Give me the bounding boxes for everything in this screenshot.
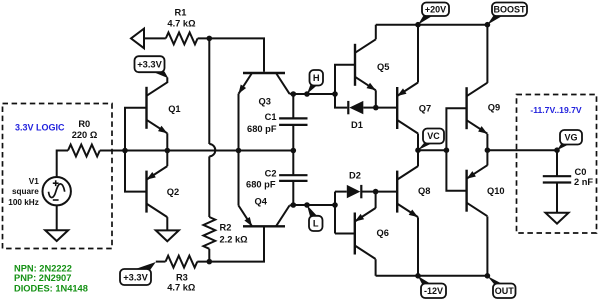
junction L flag anchor bbox=[304, 202, 310, 208]
resistor R1 bbox=[166, 33, 198, 45]
wire Q4 emitter bbox=[238, 151, 240, 206]
junction +20V anchor bbox=[415, 22, 421, 28]
svg-text:square: square bbox=[12, 187, 39, 196]
svg-text:VC: VC bbox=[427, 131, 440, 141]
junction VC anchor bbox=[415, 147, 421, 153]
svg-text:Q6: Q6 bbox=[377, 228, 389, 238]
wire Q6 collector drop bbox=[375, 259, 377, 276]
wire Q5 emitter drop bbox=[375, 90, 377, 107]
wire Q2 emitter bbox=[166, 151, 168, 167]
svg-text:2 nF: 2 nF bbox=[574, 177, 593, 187]
svg-text:DIODES: 1N4148: DIODES: 1N4148 bbox=[14, 284, 88, 294]
svg-text:Q10: Q10 bbox=[487, 186, 505, 196]
svg-text:Q5: Q5 bbox=[377, 62, 389, 72]
capacitor C2 bbox=[279, 150, 307, 205]
svg-text:D2: D2 bbox=[349, 170, 361, 180]
junction Q3/Q4 emitters bbox=[236, 148, 242, 154]
wire port to R1 bbox=[144, 37, 166, 39]
svg-text:OUT: OUT bbox=[495, 286, 515, 296]
svg-text:+20V: +20V bbox=[425, 5, 446, 15]
ground G1 bbox=[45, 230, 68, 241]
wire to Q1 base bbox=[125, 108, 147, 151]
wire to Q2 base bbox=[125, 151, 147, 192]
flag VC bbox=[418, 129, 444, 151]
wire Q1 emitter bbox=[166, 133, 168, 150]
capacitor C0 bbox=[543, 150, 571, 213]
transistor Q10 bbox=[467, 165, 488, 216]
wire hop over mid rail bbox=[209, 144, 215, 156]
wire Q1 collector stub bbox=[166, 78, 168, 84]
resistor R3 bbox=[166, 256, 198, 268]
transistor Q3 bbox=[239, 73, 290, 94]
flag BOOST bbox=[487, 3, 527, 25]
junction Q9/Q10 bases bbox=[444, 147, 450, 153]
svg-text:220 Ω: 220 Ω bbox=[72, 130, 98, 140]
svg-text:4.7 kΩ: 4.7 kΩ bbox=[167, 282, 196, 292]
junction VG anchor bbox=[554, 147, 560, 153]
input port arrow bbox=[131, 29, 144, 49]
junction L tee bbox=[332, 202, 338, 208]
svg-text:Q8: Q8 bbox=[418, 186, 430, 196]
flag OUT bbox=[487, 276, 515, 298]
wire Q9 emitter drop bbox=[486, 134, 488, 150]
svg-text:Q3: Q3 bbox=[259, 97, 271, 107]
junction Q9/Q10 emitters bbox=[485, 147, 491, 153]
svg-text:BOOST: BOOST bbox=[493, 5, 526, 15]
wire Q3 emitter bbox=[238, 94, 240, 151]
svg-text:Q7: Q7 bbox=[419, 104, 431, 114]
diode D2 bbox=[347, 185, 376, 198]
svg-text:-11.7V..19.7V: -11.7V..19.7V bbox=[530, 105, 582, 115]
flag +20V bbox=[418, 3, 449, 25]
wire L riser bbox=[334, 192, 336, 234]
svg-text:NPN: 2N2222: NPN: 2N2222 bbox=[14, 263, 72, 273]
ground G2 bbox=[156, 230, 179, 241]
svg-text:C0: C0 bbox=[575, 167, 587, 177]
wire to D2 anode bbox=[335, 191, 347, 193]
wire VG rail bbox=[487, 149, 557, 151]
svg-text:PNP: 2N2907: PNP: 2N2907 bbox=[14, 273, 71, 283]
3.3V logic dashed box bbox=[3, 104, 113, 249]
junction R2/R3 bbox=[207, 259, 213, 265]
wire mid rail bbox=[100, 150, 293, 152]
svg-text:D1: D1 bbox=[351, 120, 363, 130]
wire Q4 collector stub bbox=[290, 204, 294, 207]
diode D1 bbox=[348, 101, 376, 114]
junction BOOST anchor bbox=[485, 22, 491, 28]
svg-text:4.7 kΩ: 4.7 kΩ bbox=[167, 19, 196, 29]
capacitor C1 bbox=[279, 94, 307, 150]
wire R2 bottom bbox=[208, 249, 210, 262]
wire Q6 base bbox=[335, 233, 355, 235]
junction input node bbox=[122, 148, 128, 154]
wire Q7 collector drop bbox=[417, 134, 419, 151]
transistor Q8 bbox=[397, 166, 418, 217]
junction H flag anchor bbox=[304, 91, 310, 97]
svg-text:R3: R3 bbox=[176, 273, 188, 283]
svg-text:3.3V LOGIC: 3.3V LOGIC bbox=[15, 123, 65, 133]
svg-text:R2: R2 bbox=[220, 223, 232, 233]
svg-text:H: H bbox=[313, 73, 320, 83]
wire Q3 collector stub bbox=[290, 93, 294, 95]
wire H node bbox=[293, 93, 335, 95]
svg-text:2.2 kΩ: 2.2 kΩ bbox=[220, 235, 249, 245]
svg-text:-12V: -12V bbox=[424, 286, 443, 296]
junction H tee bbox=[332, 91, 338, 97]
resistor R2 bbox=[203, 217, 215, 249]
flag -12V bbox=[418, 276, 446, 298]
wire R1 to hop bbox=[208, 38, 210, 144]
wire VC rail bbox=[418, 149, 446, 151]
wire H to Q5 base bbox=[335, 65, 355, 94]
svg-text:100 kHz: 100 kHz bbox=[8, 198, 39, 207]
flag +3.3V at R3 bbox=[120, 262, 156, 285]
transistor Q1 bbox=[147, 82, 168, 133]
wire V1 to ground bbox=[56, 205, 58, 230]
flag +3.3V at Q1 bbox=[135, 56, 169, 78]
wire Q8 base bbox=[376, 191, 398, 193]
transistor Q9 bbox=[467, 83, 488, 134]
junction D2/Q6/Q8 bbox=[373, 189, 379, 195]
wire hop to R2 bbox=[208, 156, 210, 217]
svg-text:Q9: Q9 bbox=[488, 103, 500, 113]
wire Q9 base bbox=[446, 108, 466, 150]
transistor Q2 bbox=[147, 166, 168, 217]
svg-text:V1: V1 bbox=[29, 177, 39, 186]
wire Q5 collector riser bbox=[375, 25, 377, 40]
wire Q6 emitter riser bbox=[375, 192, 377, 209]
transistor Q4 bbox=[239, 206, 290, 227]
wire Q10 emitter riser bbox=[486, 150, 488, 165]
wire Q7 base bbox=[376, 107, 397, 109]
svg-text:L: L bbox=[313, 219, 319, 229]
svg-text:680 pF: 680 pF bbox=[246, 180, 276, 190]
wire L node bbox=[293, 204, 335, 206]
wire Q8 collector riser bbox=[417, 150, 419, 166]
wire Q9 collector riser bbox=[486, 25, 488, 83]
svg-text:Q4: Q4 bbox=[255, 196, 268, 206]
flag VG bbox=[557, 130, 582, 150]
transistor Q6 bbox=[355, 208, 376, 259]
svg-text:Q1: Q1 bbox=[168, 104, 180, 114]
junction -12V anchor bbox=[415, 273, 421, 279]
transistor Q7 bbox=[397, 83, 418, 134]
svg-text:C2: C2 bbox=[265, 168, 277, 178]
junction D1/Q5/Q7 bbox=[373, 105, 379, 111]
svg-text:Q2: Q2 bbox=[167, 187, 179, 197]
resistor R0 bbox=[68, 145, 100, 157]
svg-text:+3.3V: +3.3V bbox=[137, 60, 162, 70]
wire to D1 cathode bbox=[335, 94, 347, 108]
junction R1/R2 bbox=[207, 36, 213, 42]
wire V1 to R0 bbox=[57, 151, 68, 178]
wire flag to R3 bbox=[156, 261, 166, 263]
svg-text:+3.3V: +3.3V bbox=[123, 272, 148, 282]
wire Q10 base bbox=[446, 150, 466, 191]
svg-text:VG: VG bbox=[564, 133, 577, 143]
wire R3 to Q4 base bbox=[197, 228, 264, 262]
junction C2 bottom bbox=[291, 202, 297, 208]
junction C1 top bbox=[291, 91, 297, 97]
junction caps midpoint bbox=[291, 148, 297, 154]
voltage source V1 bbox=[43, 177, 71, 205]
wire Q7 emitter riser bbox=[417, 25, 419, 83]
wire Q10 collector drop bbox=[486, 216, 488, 275]
wire Q8 emitter drop bbox=[417, 217, 419, 275]
flag L bbox=[307, 205, 323, 231]
wire bottom rail bbox=[376, 275, 488, 277]
flag H bbox=[307, 70, 323, 94]
svg-text:680 pF: 680 pF bbox=[247, 124, 277, 134]
transistor Q5 bbox=[355, 39, 376, 90]
ground G3 bbox=[546, 213, 569, 224]
junction Q1/Q2 emitters bbox=[165, 148, 171, 154]
output range dashed box bbox=[517, 95, 597, 234]
junction OUT anchor bbox=[485, 273, 491, 279]
svg-text:C1: C1 bbox=[265, 112, 277, 122]
wire R1 to Q3 base bbox=[198, 38, 264, 71]
svg-text:R1: R1 bbox=[175, 7, 187, 17]
wire Q2 collector to ground bbox=[166, 217, 168, 230]
svg-text:R0: R0 bbox=[78, 119, 90, 129]
wire +20V rail bbox=[376, 24, 488, 26]
